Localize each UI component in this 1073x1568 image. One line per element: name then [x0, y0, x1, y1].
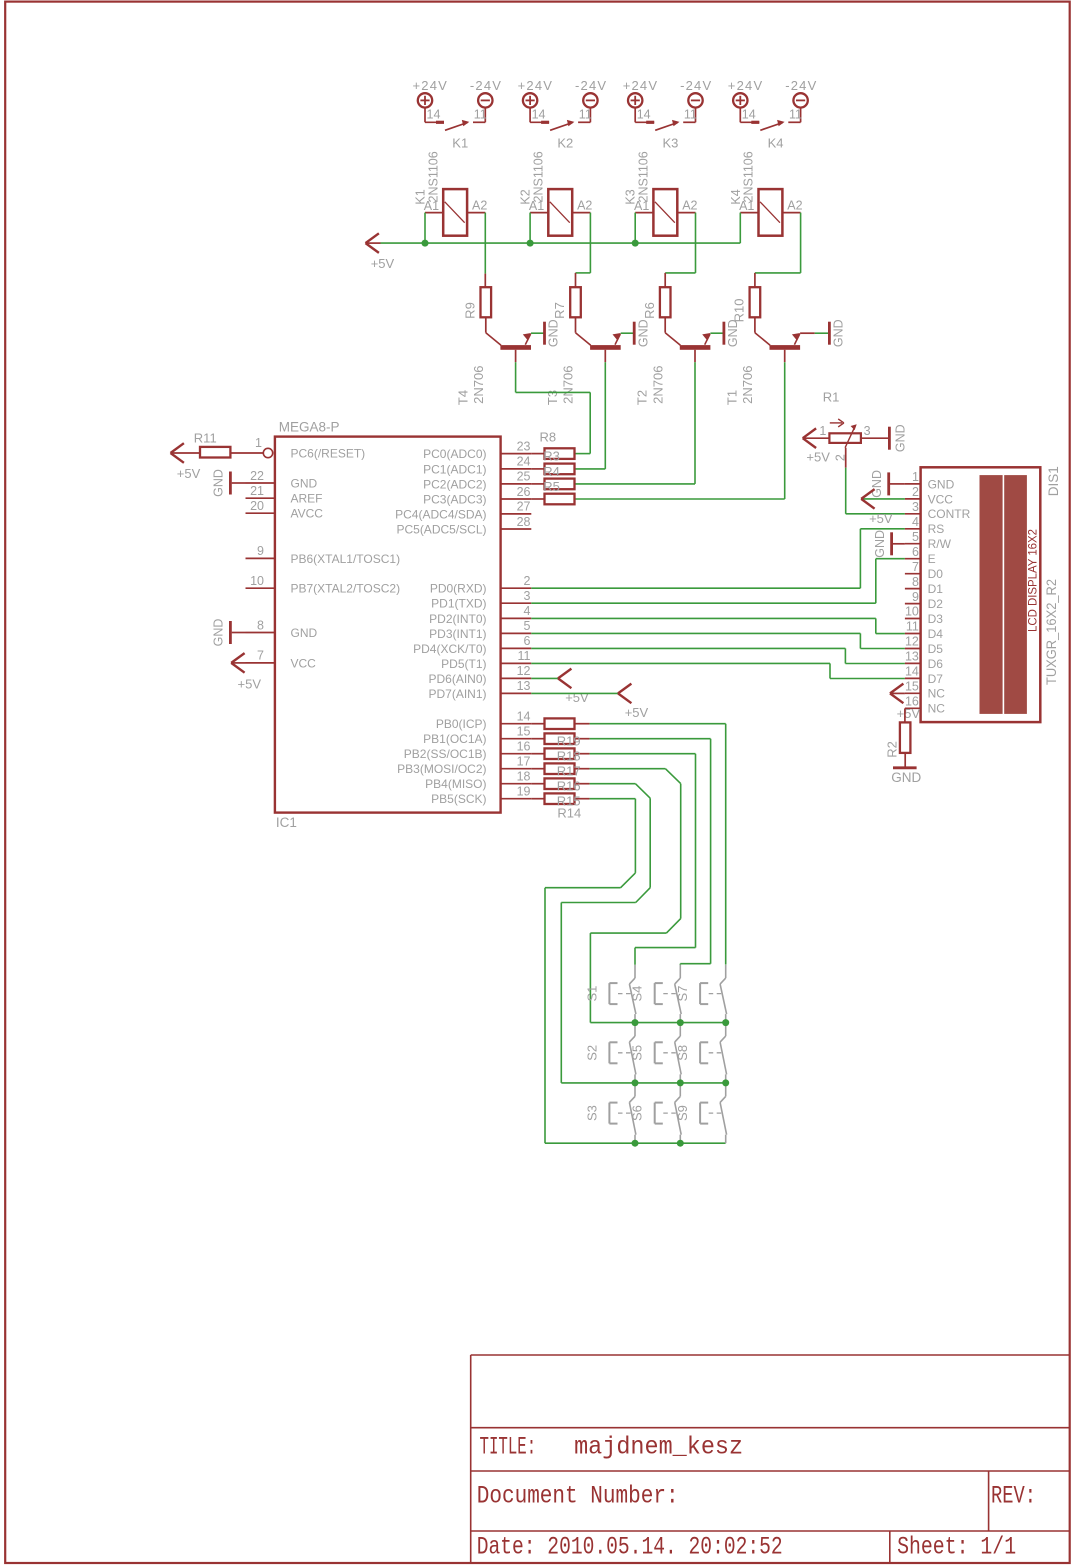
wire K3 A1 to +5V rail: [634, 213, 636, 244]
svg-text:PC0(ADC0): PC0(ADC0): [423, 447, 486, 461]
junction +5V rail: [422, 240, 429, 247]
LCD pin 12 D5: [905, 648, 921, 650]
svg-text:K4: K4: [768, 135, 784, 150]
supply +24V terminal (K1 contact): [418, 93, 432, 107]
IC U1 MEGA8-P body: [275, 437, 501, 813]
wire PD7 to +5V: [531, 692, 618, 694]
ground symbol at LCD pin 5 R/W: [893, 543, 905, 545]
relay contact K2 switch arm: [550, 123, 573, 131]
+5V supply arrow (rail): [366, 233, 379, 243]
wire T1 emitter to GND: [800, 332, 815, 334]
svg-text:+24V: +24V: [518, 78, 554, 93]
svg-text:14: 14: [905, 665, 919, 679]
wire PB0 to keypad column 3: [590, 723, 726, 725]
svg-text:20: 20: [250, 499, 264, 513]
svg-text:S1: S1: [584, 986, 599, 1002]
wire PD6 to +5V: [531, 677, 558, 679]
svg-text:11: 11: [474, 108, 487, 122]
svg-text:R/W: R/W: [928, 537, 952, 551]
IC1 pin 7 VCC: [246, 662, 275, 664]
svg-text:K1: K1: [414, 189, 428, 204]
relay contact K2 pin 11: [589, 108, 591, 123]
svg-text:11: 11: [906, 620, 919, 634]
IC1 pin 25 PC2(ADC2): [501, 483, 532, 485]
relay coil K1 pin A2: [467, 212, 485, 214]
LCD pin 7 D0: [905, 573, 921, 575]
svg-text:R16: R16: [557, 779, 581, 794]
svg-text:GND: GND: [928, 477, 955, 491]
svg-text:9: 9: [257, 544, 264, 558]
title block frame: [471, 1354, 1070, 1356]
svg-text:1: 1: [819, 424, 826, 438]
svg-text:26: 26: [517, 485, 531, 499]
relay contact K3 pin 11: [695, 108, 697, 123]
supply +24V terminal (K2 contact): [523, 93, 537, 107]
svg-text:REV:: REV:: [991, 1482, 1036, 1511]
svg-text:+5V: +5V: [177, 466, 201, 481]
resistor R15: [531, 798, 544, 800]
wire PD5 to LCD D7: [531, 662, 830, 664]
LCD pin 2 VCC: [905, 498, 921, 500]
wire K4 A1 to +5V rail: [739, 213, 741, 244]
svg-text:R10: R10: [732, 299, 747, 323]
svg-text:S7: S7: [675, 986, 690, 1002]
svg-text:AVCC: AVCC: [291, 507, 324, 521]
svg-text:GND: GND: [832, 319, 846, 347]
svg-text:4: 4: [524, 604, 531, 618]
IC1 pin 26 PC3(ADC3): [501, 498, 532, 500]
svg-text:-24V: -24V: [680, 78, 712, 93]
ground symbol at IC1 pin 8: [229, 621, 232, 644]
svg-text:PB2(SS/OC1B): PB2(SS/OC1B): [404, 747, 487, 761]
IC1 pin 4 PD2(INT0): [501, 617, 532, 619]
svg-text:16: 16: [517, 740, 531, 754]
supply -24V terminal (K3 contact): [688, 93, 702, 107]
wire K2 A2 down to R7: [589, 213, 591, 273]
wire T1 base down: [784, 350, 786, 362]
svg-text:T1: T1: [724, 390, 739, 405]
svg-text:22: 22: [250, 469, 264, 483]
relay contact K3 switch arm: [655, 123, 678, 131]
svg-text:PB3(MOSI/OC2): PB3(MOSI/OC2): [397, 762, 486, 776]
svg-text:11: 11: [518, 649, 531, 663]
wire keypad row 3 bus: [545, 1142, 726, 1144]
svg-text:R1: R1: [823, 390, 840, 405]
relay coil K1 2NS1106: [443, 189, 467, 236]
svg-text:A2: A2: [682, 199, 697, 213]
wire IC1 pin 8 to GND: [232, 632, 246, 634]
svg-text:GND: GND: [636, 319, 650, 347]
wire keypad row 1 bus: [590, 1022, 725, 1024]
svg-text:1: 1: [255, 436, 262, 450]
svg-text:TUXGR_16X2_R2: TUXGR_16X2_R2: [1044, 579, 1059, 685]
svg-text:2N706: 2N706: [650, 366, 665, 404]
wire T4 base down: [515, 350, 517, 362]
resistor R6: [660, 287, 671, 317]
svg-text:R19: R19: [557, 734, 581, 749]
resistor R9: [481, 287, 492, 317]
svg-text:13: 13: [517, 679, 531, 693]
svg-text:RS: RS: [928, 522, 945, 536]
svg-text:IC1: IC1: [276, 815, 297, 830]
IC1 pin 23 PC0(ADC0): [501, 453, 532, 455]
ground symbol at T3 emitter: [633, 322, 636, 345]
IC1 pin 15 PB1(OC1A): [501, 738, 532, 740]
resistor R7: [570, 287, 581, 317]
wire PD3 to LCD D5: [531, 632, 860, 634]
svg-text:GND: GND: [894, 424, 908, 452]
wire PB5 to keypad row 3: [590, 798, 636, 800]
svg-text:T4: T4: [455, 390, 470, 405]
relay coil K4 pin A1: [740, 212, 758, 214]
relay contact K1 pin 14: [424, 108, 426, 123]
wire T4 emitter to GND: [531, 332, 545, 334]
junction +5V rail: [632, 240, 639, 247]
resistor R19: [531, 738, 544, 740]
junction keypad row 3: [632, 1140, 639, 1147]
svg-text:GND: GND: [291, 626, 318, 640]
svg-text:+24V: +24V: [623, 78, 659, 93]
LCD pin 14 D7: [905, 677, 921, 679]
svg-text:-24V: -24V: [785, 78, 817, 93]
IC1 pin 16 PB2(SS/OC1B): [501, 753, 532, 755]
svg-text:7: 7: [257, 649, 264, 663]
svg-text:NC: NC: [928, 702, 946, 716]
LCD pin 6 E: [905, 558, 921, 560]
svg-text:GND: GND: [547, 319, 561, 347]
switch S4: [679, 965, 681, 978]
svg-text:28: 28: [517, 515, 531, 529]
relay contact K3 pin 14: [634, 108, 636, 123]
+5V arrow at IC1 pin 7 VCC: [231, 653, 244, 663]
svg-text:24: 24: [517, 455, 531, 469]
svg-text:17: 17: [517, 755, 531, 769]
svg-text:-24V: -24V: [575, 78, 607, 93]
wire PD0 to LCD RS: [531, 587, 860, 589]
wire T2 emitter to GND: [710, 332, 724, 334]
IC1 pin 8 GND: [246, 632, 275, 634]
wire PB3 to keypad row 1: [590, 768, 666, 770]
IC1 pin 5 PD3(INT1): [501, 632, 532, 634]
LCD display glass area: [980, 475, 1003, 714]
svg-text:PB7(XTAL2/TOSC2): PB7(XTAL2/TOSC2): [291, 582, 401, 596]
svg-text:18: 18: [517, 770, 531, 784]
potentiometer R1: [803, 437, 830, 439]
resistor R17: [531, 768, 544, 770]
ground symbol at R1 pin 3: [888, 427, 891, 450]
svg-text:K3: K3: [663, 135, 679, 150]
svg-text:PD7(AIN1): PD7(AIN1): [428, 687, 486, 701]
svg-text:6: 6: [912, 545, 919, 559]
LCD pin 13 D6: [905, 662, 921, 664]
svg-text:PC6(/RESET): PC6(/RESET): [291, 446, 366, 460]
svg-text:2NS1106: 2NS1106: [742, 151, 756, 202]
IC1 pin 28 PC5(ADC5/SCL): [501, 528, 532, 530]
svg-text:11: 11: [684, 108, 697, 122]
+5V arrow at PD7: [618, 684, 631, 694]
svg-text:15: 15: [517, 725, 531, 739]
wire IC1 pin 22 to GND: [232, 482, 246, 484]
svg-text:14: 14: [517, 710, 531, 724]
wire K2 A1 to +5V rail: [529, 213, 531, 244]
LCD pin 11 D4: [905, 633, 921, 635]
wire LCD pin 16 to R2: [904, 708, 906, 722]
svg-text:D3: D3: [928, 612, 944, 626]
svg-text:R5: R5: [543, 479, 560, 494]
svg-text:PD5(T1): PD5(T1): [441, 657, 486, 671]
svg-text:10: 10: [250, 574, 264, 588]
svg-text:S3: S3: [584, 1105, 599, 1121]
svg-text:D5: D5: [928, 642, 944, 656]
svg-text:K2: K2: [557, 135, 573, 150]
LCD pin 10 D3: [905, 618, 921, 620]
svg-text:12: 12: [905, 635, 919, 649]
svg-text:D4: D4: [928, 627, 944, 641]
switch S9: [725, 1083, 727, 1096]
svg-text:2N706: 2N706: [740, 366, 755, 404]
switch S1: [634, 965, 636, 978]
switch S2: [634, 1023, 636, 1036]
wire R1 pin 3 to GND: [861, 437, 890, 439]
svg-text:10: 10: [905, 605, 919, 619]
switch S7: [725, 965, 727, 978]
svg-text:MEGA8-P: MEGA8-P: [279, 420, 340, 435]
svg-text:A2: A2: [577, 199, 592, 213]
svg-text:VCC: VCC: [928, 492, 954, 506]
svg-text:R6: R6: [642, 302, 657, 319]
relay coil K4 pin A2: [782, 212, 800, 214]
resistor R11: [200, 447, 230, 458]
svg-text:PD6(AIN0): PD6(AIN0): [428, 672, 486, 686]
svg-text:2: 2: [524, 574, 531, 588]
svg-text:R14: R14: [557, 806, 581, 821]
svg-text:R11: R11: [194, 430, 217, 445]
svg-text:13: 13: [905, 650, 919, 664]
relay contact K4 pin 14: [739, 108, 741, 123]
wire R2 to GND: [904, 753, 906, 767]
IC1 pin 22 GND: [246, 482, 275, 484]
wire K1 A2 down to R9: [484, 213, 486, 274]
svg-text:5: 5: [524, 619, 531, 633]
IC1 pin 13 PD7(AIN1): [501, 692, 532, 694]
ground symbol at LCD pin 1: [890, 483, 905, 485]
IC1 pin 19 PB5(SCK): [501, 798, 532, 800]
+5V arrow at LCD pin 2 VCC: [861, 498, 905, 500]
wire PD4 to LCD D6: [531, 647, 845, 649]
wire T3 base to R4: [604, 362, 606, 469]
junction keypad row 1: [632, 1019, 639, 1026]
svg-text:1: 1: [912, 470, 919, 484]
wire PD2 to LCD D4: [531, 617, 876, 619]
svg-text:K4: K4: [729, 189, 743, 204]
svg-text:5: 5: [912, 530, 919, 544]
wire IC1 pin 7 to +5V: [231, 662, 245, 664]
svg-text:PB5(SCK): PB5(SCK): [431, 792, 486, 806]
svg-text:PD1(TXD): PD1(TXD): [431, 597, 486, 611]
wire PB4 to keypad row 2: [590, 783, 636, 785]
svg-text:R9: R9: [462, 302, 477, 319]
svg-text:Sheet: 1/1: Sheet: 1/1: [897, 1533, 1016, 1562]
relay contact K2 pin 14: [529, 108, 531, 123]
svg-text:majdnem_kesz: majdnem_kesz: [574, 1433, 743, 1462]
resistor R3: [531, 453, 544, 455]
svg-text:2NS1106: 2NS1106: [637, 151, 651, 202]
svg-text:D6: D6: [928, 657, 944, 671]
svg-text:+5V: +5V: [371, 256, 395, 271]
svg-text:AREF: AREF: [291, 492, 323, 506]
svg-text:PD0(RXD): PD0(RXD): [430, 582, 487, 596]
svg-text:GND: GND: [212, 619, 226, 647]
ground symbol at T2 emitter: [723, 322, 726, 345]
svg-text:S8: S8: [675, 1045, 690, 1061]
switch S6: [679, 1083, 681, 1096]
svg-text:11: 11: [789, 108, 802, 122]
svg-text:K3: K3: [624, 189, 638, 204]
resistor R2: [900, 722, 911, 753]
junction keypad row 2: [632, 1079, 639, 1086]
svg-text:+5V: +5V: [897, 706, 921, 721]
svg-text:14: 14: [637, 108, 651, 122]
IC1 pin 3 PD1(TXD): [501, 602, 532, 604]
svg-text:14: 14: [532, 108, 546, 122]
wire K4 A2 down to R10: [800, 213, 802, 273]
relay coil K3 pin A2: [677, 212, 695, 214]
IC1 pin 21 AREF: [246, 497, 275, 499]
svg-text:+5V: +5V: [238, 677, 262, 692]
resistor R16: [531, 783, 544, 785]
resistor R10: [750, 287, 761, 317]
relay coil K4 2NS1106: [759, 189, 783, 236]
svg-text:2N706: 2N706: [471, 366, 486, 404]
ground symbol at T4 emitter: [543, 322, 546, 345]
wire keypad row 2 bus: [561, 1082, 725, 1084]
IC1 pin 6 PD4(XCK/T0): [501, 647, 532, 649]
svg-text:CONTR: CONTR: [928, 507, 971, 521]
IC1 pin 20 AVCC: [246, 512, 275, 514]
wire R11 to pin1: [171, 452, 201, 454]
svg-text:PB6(XTAL1/TOSC1): PB6(XTAL1/TOSC1): [291, 552, 401, 566]
svg-text:3: 3: [912, 500, 919, 514]
IC1 pin 14 PB0(ICP): [501, 723, 532, 725]
svg-text:D1: D1: [928, 582, 944, 596]
wire +5V rail: [366, 242, 381, 244]
svg-text:PB0(ICP): PB0(ICP): [436, 717, 487, 731]
transistor T1 2N706: [754, 317, 756, 332]
wire T1 base to R8 resistor 4: [784, 362, 786, 499]
switch S8: [725, 1023, 727, 1036]
svg-text:PC2(ADC2): PC2(ADC2): [423, 477, 486, 491]
svg-text:R7: R7: [552, 302, 567, 319]
svg-text:PC4(ADC4/SDA): PC4(ADC4/SDA): [395, 507, 486, 521]
svg-text:PC5(ADC5/SCL): PC5(ADC5/SCL): [396, 522, 486, 536]
LCD pin 16 NC: [905, 707, 921, 709]
svg-text:3: 3: [524, 589, 531, 603]
svg-text:15: 15: [905, 680, 919, 694]
relay contact K1 switch arm: [445, 123, 468, 131]
IC1 pin 12 PD6(AIN0): [501, 677, 532, 679]
svg-text:Document Number:: Document Number:: [477, 1482, 679, 1511]
svg-text:8: 8: [912, 575, 919, 589]
+5V arrow at R1 pin 1: [803, 428, 816, 438]
svg-text:S4: S4: [630, 986, 645, 1002]
relay contact K4 pin 11: [800, 108, 802, 123]
junction +5V rail: [527, 240, 534, 247]
svg-text:+24V: +24V: [413, 78, 449, 93]
svg-text:7: 7: [912, 560, 919, 574]
svg-text:R18: R18: [557, 749, 581, 764]
relay contact K1 pin 11: [484, 108, 486, 123]
svg-text:GND: GND: [726, 319, 740, 347]
svg-text:TITLE:: TITLE:: [480, 1433, 537, 1462]
svg-text:25: 25: [517, 470, 531, 484]
transistor T3 2N706: [575, 317, 577, 332]
LCD display DIS1 TUXGR_16X2_R2 body: [921, 467, 1041, 722]
supply +24V terminal (K3 contact): [628, 93, 642, 107]
svg-text:VCC: VCC: [291, 656, 317, 670]
LCD pin 3 CONTR: [905, 513, 921, 515]
wire T4 base to R3: [515, 362, 517, 392]
transistor T2 2N706: [664, 317, 666, 332]
relay coil K2 pin A2: [572, 212, 590, 214]
supply -24V terminal (K2 contact): [583, 93, 597, 107]
svg-text:S2: S2: [584, 1045, 599, 1061]
svg-text:D2: D2: [928, 597, 944, 611]
svg-text:2N706: 2N706: [561, 366, 576, 404]
svg-text:8: 8: [257, 618, 264, 632]
svg-text:+5V: +5V: [806, 449, 830, 464]
svg-text:K1: K1: [452, 135, 468, 150]
svg-text:PD2(INT0): PD2(INT0): [429, 612, 486, 626]
svg-text:GND: GND: [870, 470, 884, 498]
svg-text:S5: S5: [630, 1045, 645, 1061]
wire K3 A2 down to R6: [695, 213, 697, 273]
LCD pin 15 NC: [905, 692, 921, 694]
svg-text:E: E: [928, 552, 936, 566]
relay contact K4 switch arm: [760, 123, 783, 131]
switch S3: [634, 1083, 636, 1096]
svg-text:19: 19: [517, 785, 531, 799]
svg-text:LCD DISPLAY 16X2: LCD DISPLAY 16X2: [1028, 529, 1040, 632]
ground symbol below R2: [893, 766, 917, 769]
supply -24V terminal (K4 contact): [793, 93, 807, 107]
svg-text:9: 9: [912, 590, 919, 604]
svg-text:A2: A2: [472, 199, 487, 213]
svg-text:S6: S6: [630, 1105, 645, 1121]
svg-text:T2: T2: [635, 390, 650, 405]
svg-text:2NS1106: 2NS1106: [426, 151, 440, 202]
relay coil K2 pin A1: [530, 212, 548, 214]
svg-text:4: 4: [912, 515, 919, 529]
svg-text:+5V: +5V: [869, 511, 893, 526]
svg-text:21: 21: [250, 484, 264, 498]
svg-text:11: 11: [579, 108, 592, 122]
svg-text:R8: R8: [540, 429, 557, 444]
svg-text:14: 14: [742, 108, 756, 122]
svg-text:12: 12: [517, 664, 531, 678]
svg-text:2: 2: [912, 485, 919, 499]
relay coil K3 pin A1: [635, 212, 653, 214]
svg-text:DIS1: DIS1: [1046, 466, 1061, 496]
transistor T4 2N706: [485, 317, 487, 332]
wire T2 base to R5: [694, 362, 696, 484]
svg-text:-24V: -24V: [470, 78, 502, 93]
svg-text:GND: GND: [891, 770, 921, 785]
svg-text:R3: R3: [543, 449, 560, 464]
wire PD1 to LCD E: [531, 602, 876, 604]
LCD pin 5 R/W: [905, 543, 921, 545]
resistor R5: [531, 483, 544, 485]
svg-text:D7: D7: [928, 672, 944, 686]
